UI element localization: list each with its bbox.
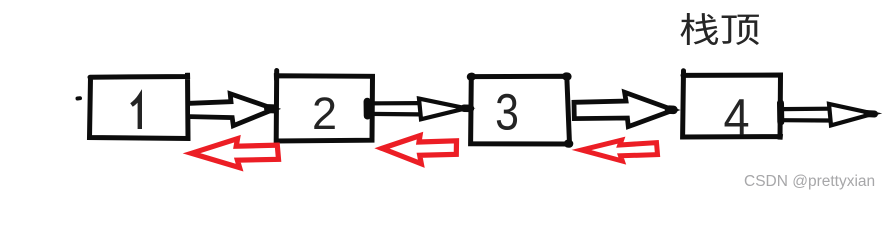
svg-text:4: 4 [723,90,749,146]
node 2 box [276,71,372,142]
svg-text:2: 2 [312,88,337,139]
watermark CSDN @prettyxian [744,173,875,191]
prev-pointer red arrow 1 (node2 back to node1) [192,139,279,168]
prev-pointer red arrow 3 (node4 back to node3) [582,140,658,161]
node 3 corner pen dots [471,76,570,143]
node 4 box [683,71,781,140]
next-pointer arrow 3 (node3 to node4) [574,92,674,126]
node value 1 [132,97,140,130]
node 1 box [90,73,189,139]
label "栈顶" (stack top) char 2: 顶 [722,15,759,45]
label "栈顶" (stack top) char 1: 栈 [680,13,759,45]
stray pen dot [78,96,81,100]
next-pointer arrow 1 (node1 to node2) [190,94,274,126]
next-pointer arrow 2 (node2 to node3) [367,99,470,120]
next-pointer arrow 4 (node4 to null, off right edge) [781,103,875,125]
node 3 box [471,76,570,144]
svg-text:3: 3 [495,83,519,140]
prev-pointer red arrow 2 (node3 back to node2) [382,136,457,164]
